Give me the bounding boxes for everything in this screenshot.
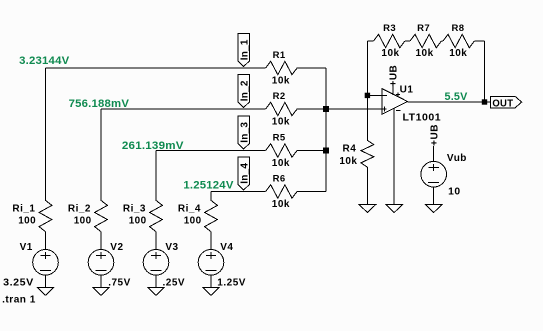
wire R8 to output node [474,41,484,102]
svg-text:+UB: +UB [388,65,399,87]
op-amp U1 input leads [382,95,387,109]
wire input row 3 [156,150,326,152]
svg-text:3.25V: 3.25V [3,277,34,288]
resistor R2 [266,102,297,115]
svg-text:.25V: .25V [163,277,186,288]
port flag In_3 [238,116,251,149]
power label +UB at U1 [388,65,399,87]
resistor Ri_4 [205,200,218,231]
wire R7-R8 [441,40,443,42]
label Vub [447,153,467,164]
resistor R5 [266,144,297,157]
wire inverting input [367,94,386,96]
value R2 10k [272,116,290,127]
value Ri_1 100 [18,215,36,226]
op-amp U1 plus input marker [383,106,385,111]
svg-text:In_3: In_3 [239,122,250,143]
svg-text:OUT: OUT [492,97,513,109]
net voltage label 756.188mV [69,98,130,110]
svg-text:Ri_3: Ri_3 [123,203,146,214]
svg-text:R6: R6 [273,174,286,185]
svg-text:10k: 10k [381,48,399,59]
ground R4 [359,205,376,213]
value V4 1.25V [217,277,246,288]
resistor R6 [266,185,297,198]
resistor Ri_2 [95,200,108,231]
wire Ri_2 to V2 [100,232,102,250]
svg-text:100: 100 [74,215,92,226]
svg-text:In_2: In_2 [239,80,250,101]
svg-text:V1: V1 [20,242,33,253]
resistor R8 [443,34,474,47]
wire feedback left [367,40,373,42]
svg-text:10k: 10k [272,116,290,127]
label R7 [417,23,430,34]
label R5 [273,133,286,144]
wire Ri_4 to V4 [210,232,212,250]
svg-text:10k: 10k [272,158,290,169]
svg-text:In_4: In_4 [239,163,250,184]
svg-text:V4: V4 [220,242,233,253]
svg-text:10: 10 [448,187,461,198]
label V1 [20,242,33,253]
ground Vub [425,205,442,213]
net voltage label 1.25124V [183,179,234,191]
value R7 10k [416,48,434,59]
svg-text:100: 100 [18,215,36,226]
svg-text:.75V: .75V [108,277,131,288]
label V2 [110,242,123,253]
wire output [408,101,491,103]
value R3 10k [381,48,399,59]
junction inverting input [365,93,370,98]
label R1 [273,50,286,61]
wire input row 1 [46,67,327,69]
label Ri_2 [68,203,91,214]
wire input row 2 [101,108,326,110]
value V3 .25V [163,277,186,288]
svg-text:Ri_2: Ri_2 [68,203,91,214]
svg-text:3.23144V: 3.23144V [19,55,70,67]
voltage source Vub [421,161,447,187]
label R6 [273,174,286,185]
voltage source V1 [33,249,59,275]
voltage source V4 [198,249,224,275]
net voltage label 5.5V [445,91,468,103]
wire summing bus [325,68,327,192]
value Ri_2 100 [74,215,92,226]
resistor Ri_3 [150,200,163,231]
power label +UB at Vub [430,124,441,146]
svg-text:R1: R1 [273,50,286,61]
label V3 [165,242,178,253]
value R8 10k [449,48,467,59]
net voltage label 3.23144V [19,55,70,67]
junction bus row3 [323,148,329,154]
value R4 10k [339,156,357,167]
ground V4 [203,287,220,295]
svg-text:10k: 10k [272,199,290,210]
svg-text:10k: 10k [272,75,290,86]
resistor R4 [361,140,374,167]
value Ri_3 100 [129,215,147,226]
spice directive .tran 1 [2,295,36,306]
svg-text:Vub: Vub [447,153,467,164]
op-amp U1 V+ pin [392,85,394,95]
value R1 10k [272,75,290,86]
op-amp U1 body [382,89,408,115]
net voltage label 261.139mV [122,140,184,152]
wire Vub to ground [433,187,435,205]
value V2 .75V [108,277,131,288]
wire input row 4 [211,191,326,193]
wire R4 to ground [366,167,368,204]
label R8 [452,23,465,34]
wire feedback vertical [366,41,368,140]
svg-text:R3: R3 [383,23,396,34]
svg-text:V2: V2 [110,242,123,253]
op-amp U1 V+ marker [396,92,400,96]
value U1 LT1001 [403,113,442,124]
ground V3 [148,287,165,295]
svg-text:10k: 10k [339,156,357,167]
value Ri_4 100 [184,215,202,226]
wire Ri_1 to V1 [45,232,47,250]
op-amp U1 V- marker [396,109,400,111]
svg-text:5.5V: 5.5V [445,91,468,103]
svg-text:R7: R7 [417,23,430,34]
value R6 10k [272,199,290,210]
junction bus row2 [323,106,329,112]
svg-text:Ri_1: Ri_1 [12,203,35,214]
wire Ri_3 to V3 [155,232,157,250]
wire branch 2 vertical [100,109,102,200]
wire R3-R7 [405,40,410,42]
wire non-inverting input [326,108,387,110]
ground V1 [37,287,54,295]
value V1 3.25V [3,277,34,288]
junction output [482,99,487,104]
svg-text:+UB: +UB [430,124,441,146]
svg-text:.tran 1: .tran 1 [2,295,36,306]
port flag OUT [491,96,522,109]
svg-text:1.25V: 1.25V [217,277,246,288]
value Vub 10 [448,187,461,198]
svg-text:R2: R2 [273,91,286,102]
voltage source V2 [88,249,114,275]
wire branch 4 vertical [210,192,212,201]
ground V2 [93,287,110,295]
wire +UB to Vub [433,146,435,162]
svg-text:756.188mV: 756.188mV [69,98,130,110]
label Ri_1 [12,203,35,214]
svg-text:100: 100 [129,215,147,226]
svg-text:R5: R5 [273,133,286,144]
svg-text:10k: 10k [449,48,467,59]
svg-text:Ri_4: Ri_4 [178,203,201,214]
svg-text:10k: 10k [416,48,434,59]
port flag In_4 [238,157,251,190]
wire V4 to ground [210,275,212,287]
resistor R1 [266,61,297,74]
voltage source V3 [143,249,169,275]
port flag In_1 [238,34,251,67]
wire branch 3 vertical [155,151,157,201]
resistor R7 [410,34,441,47]
svg-text:LT1001: LT1001 [403,113,442,124]
ground U1 V- [386,205,403,213]
op-amp U1 V- pin [393,108,395,204]
resistor Ri_1 [39,200,52,231]
resistor R3 [374,34,405,47]
label V4 [220,242,233,253]
svg-text:R4: R4 [343,143,357,154]
svg-text:261.139mV: 261.139mV [122,140,184,152]
label R3 [383,23,396,34]
svg-text:100: 100 [184,215,202,226]
wire V1 to ground [45,275,47,287]
port flag In_2 [238,75,251,108]
wire V3 to ground [155,275,157,287]
label Ri_4 [178,203,201,214]
svg-text:V3: V3 [165,242,178,253]
label R2 [273,91,286,102]
svg-text:U1: U1 [400,84,414,95]
label R4 [343,143,357,154]
wire V2 to ground [100,275,102,287]
label U1 [400,84,414,95]
wire branch 1 vertical [45,68,47,200]
svg-text:R8: R8 [452,23,465,34]
svg-text:In_1: In_1 [239,39,250,60]
value R5 10k [272,158,290,169]
label Ri_3 [123,203,146,214]
svg-text:1.25124V: 1.25124V [183,179,234,191]
